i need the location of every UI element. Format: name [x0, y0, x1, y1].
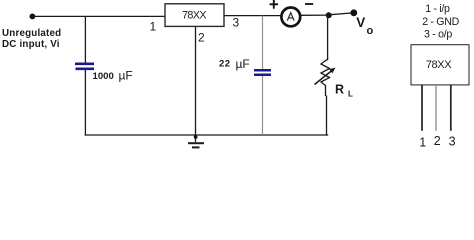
wire C2 bottom — [262, 76, 264, 135]
ammeter letter A — [287, 13, 294, 21]
capacitor C1 1000uF plates — [75, 62, 94, 65]
svg-text:1 - i/p: 1 - i/p — [425, 3, 450, 15]
svg-text:V: V — [356, 15, 365, 30]
package pin 3 — [450, 85, 452, 131]
svg-text:o: o — [367, 25, 374, 37]
capacitor C2 22uF plates — [254, 69, 271, 72]
svg-text:3 - o/p: 3 - o/p — [424, 28, 452, 40]
svg-text:1: 1 — [419, 136, 426, 150]
svg-text:µF: µF — [236, 57, 250, 71]
wire to output terminal — [329, 13, 351, 15]
junction dot output node — [326, 12, 332, 18]
regulator U1 box — [165, 4, 224, 27]
svg-text:22: 22 — [219, 58, 230, 69]
svg-text:µF: µF — [119, 69, 133, 83]
svg-text:R: R — [335, 83, 344, 97]
svg-text:1: 1 — [150, 20, 157, 34]
svg-text:1000: 1000 — [93, 71, 114, 82]
package U1 body — [411, 45, 469, 85]
arrow of variable resistor — [315, 70, 333, 85]
svg-text:3: 3 — [449, 135, 456, 149]
ammeter A1 circle — [281, 8, 300, 27]
svg-text:DC input, Vi: DC input, Vi — [2, 39, 60, 50]
svg-text:2: 2 — [434, 134, 441, 148]
junction dot ground node — [194, 135, 198, 139]
svg-text:Unregulated: Unregulated — [2, 28, 61, 39]
svg-text:78XX: 78XX — [426, 59, 452, 71]
input terminal dot — [30, 14, 36, 20]
wire pin2 down — [195, 26, 197, 142]
output terminal dot — [350, 9, 357, 16]
ground symbol — [188, 142, 204, 144]
svg-text:78XX: 78XX — [182, 9, 206, 21]
resistor RL zigzag — [321, 58, 330, 86]
wire junction to RL — [327, 15, 329, 59]
wire bottom rail — [85, 134, 328, 136]
svg-text:3: 3 — [233, 16, 240, 30]
svg-text:2: 2 — [198, 31, 205, 45]
wire pin3 to ammeter — [224, 15, 281, 17]
wire ammeter to junction — [301, 14, 329, 16]
svg-text:L: L — [348, 90, 353, 99]
wire C1 top — [84, 16, 86, 63]
wire C1 bottom — [84, 70, 86, 136]
wire RL bottom — [325, 85, 327, 96]
plus sign — [270, 0, 278, 9]
package pin 1 — [421, 85, 423, 131]
minus sign — [305, 3, 313, 5]
wire C2 top — [262, 16, 264, 69]
svg-text:2 - GND: 2 - GND — [422, 16, 459, 28]
package pin 2 — [435, 85, 437, 131]
wire input top — [32, 15, 165, 17]
